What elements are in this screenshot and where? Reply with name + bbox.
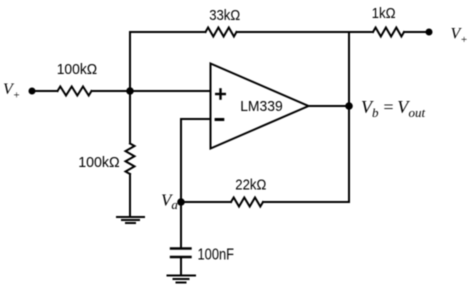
wire top horizontal left segment (node column to 33k)	[130, 31, 206, 33]
op-amp + input symbol	[215, 88, 226, 100]
resistor 1kΩ	[373, 28, 404, 37]
svg-text:22kΩ: 22kΩ	[235, 177, 266, 194]
wire top horizontal middle segment (33k to 1k)	[237, 31, 374, 33]
svg-text:1kΩ: 1kΩ	[372, 5, 396, 22]
svg-text:100kΩ: 100kΩ	[57, 61, 97, 78]
node + input junction	[126, 87, 134, 95]
wire capacitor to ground	[180, 257, 182, 275]
svg-text:V+: V+	[3, 81, 20, 102]
wire V+ terminal to 100k resistor	[32, 90, 58, 92]
svg-text:100kΩ: 100kΩ	[78, 154, 120, 171]
wire 100k to node to op-amp + input	[92, 90, 211, 92]
svg-text:Va: Va	[161, 191, 178, 213]
node Vb output junction	[345, 102, 353, 110]
wire op-amp - input horizontal	[181, 118, 211, 120]
wire node down to 100k vertical resistor	[129, 91, 131, 144]
wire 22k to node Va	[181, 201, 231, 203]
node Va junction	[177, 198, 185, 206]
wire 100k vertical to ground	[129, 174, 131, 216]
resistor 100kΩ horizontal	[58, 87, 92, 96]
ground (below capacitor)	[168, 276, 196, 283]
label Vb = Vout	[361, 97, 426, 120]
svg-text:b: b	[372, 105, 379, 120]
wire left vertical (top wire down to + input node)	[129, 32, 131, 91]
svg-text:V+: V+	[451, 26, 468, 47]
resistor 33kΩ	[206, 28, 237, 37]
resistor 22kΩ	[231, 198, 263, 207]
svg-text:LM339: LM339	[240, 98, 283, 115]
svg-text:out: out	[409, 105, 426, 120]
capacitor C1 100nF	[171, 249, 191, 258]
op-amp - input symbol	[215, 118, 225, 121]
terminal dot V+ left	[29, 88, 36, 95]
resistor 100kΩ vertical	[126, 144, 135, 175]
op-amp U1 LM339 triangle	[211, 64, 309, 149]
wire output (op-amp apex to output node)	[309, 105, 350, 107]
terminal dot V+ right	[426, 29, 433, 36]
svg-text:100nF: 100nF	[198, 247, 235, 264]
ground (below 100k resistor)	[117, 217, 144, 223]
wire output vertical (top wire to output node to feedback corner)	[348, 32, 350, 202]
svg-text:=: =	[382, 97, 394, 117]
wire 1k to V+ terminal	[404, 31, 429, 33]
wire - input vertical down to node Va	[180, 119, 182, 202]
wire feedback bottom (corner to 22k)	[263, 201, 349, 203]
wire node Va down to capacitor	[180, 202, 182, 248]
svg-text:33kΩ: 33kΩ	[209, 7, 240, 24]
